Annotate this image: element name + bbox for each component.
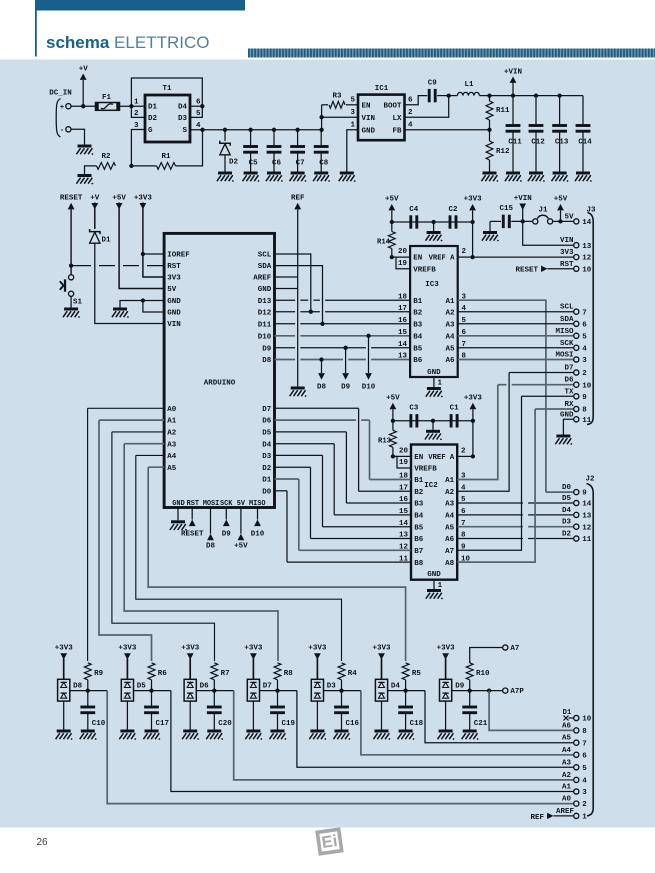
wire VREFA to 3V3 node xyxy=(458,256,473,258)
pin J2-13 D4 xyxy=(562,507,592,521)
net tag RESET xyxy=(60,195,83,276)
svg-text:13: 13 xyxy=(398,353,408,361)
svg-text:J2: J2 xyxy=(585,476,595,484)
diode D1 xyxy=(90,229,111,245)
svg-text:B2: B2 xyxy=(413,309,423,317)
ground C4/C2 mid xyxy=(426,222,443,241)
net tag D10 bottom xyxy=(251,508,265,539)
svg-text:+3V3: +3V3 xyxy=(437,645,456,653)
ground arduino bottom xyxy=(170,508,187,531)
svg-text:A1: A1 xyxy=(562,784,572,792)
svg-text:D12: D12 xyxy=(258,309,272,317)
svg-text:12: 12 xyxy=(582,255,592,263)
ground D9 xyxy=(438,731,455,739)
svg-text:B3: B3 xyxy=(414,501,424,509)
pin bottom-6 A4 xyxy=(562,747,587,761)
svg-text:C6: C6 xyxy=(272,159,282,167)
net tag REF xyxy=(291,195,305,387)
svg-text:3: 3 xyxy=(582,357,587,365)
wire D2 to IC2 B xyxy=(275,467,412,538)
wire IC3 GND pin xyxy=(433,377,435,387)
svg-text:3: 3 xyxy=(350,109,355,117)
ground D8 xyxy=(56,731,73,739)
svg-text:RST: RST xyxy=(167,263,181,271)
capacitor C17 xyxy=(144,691,169,730)
svg-text:D1: D1 xyxy=(101,237,111,245)
resistor R9 xyxy=(84,663,103,691)
wire DC+ to fuse xyxy=(71,104,95,108)
resistor R12 xyxy=(486,130,510,172)
svg-text:SDA: SDA xyxy=(560,316,574,324)
power tag +3V3 cell R7 xyxy=(181,645,200,680)
svg-text:A1: A1 xyxy=(445,298,455,306)
svg-text:A4: A4 xyxy=(445,513,455,521)
wire D9 row to IC3 B5 xyxy=(275,346,411,350)
wire +VIN top rail xyxy=(487,93,583,97)
svg-text:A2: A2 xyxy=(445,309,455,317)
svg-text:A2: A2 xyxy=(167,430,177,438)
pin J3-10 RST xyxy=(515,261,591,275)
wire AREF stub xyxy=(275,276,298,278)
svg-text:VIN: VIN xyxy=(362,115,376,123)
dual diode D4 xyxy=(375,679,400,730)
ground D5 xyxy=(119,731,136,739)
svg-text:+3V3: +3V3 xyxy=(118,645,137,653)
wire D0 to IC2 B xyxy=(275,491,412,562)
svg-text:+3V3: +3V3 xyxy=(464,394,483,402)
svg-text:C18: C18 xyxy=(410,720,424,728)
svg-text:L1: L1 xyxy=(464,81,474,89)
svg-text:C15: C15 xyxy=(500,205,514,213)
wire arduino A1 to divider xyxy=(99,420,164,661)
ground C13 xyxy=(552,173,569,181)
svg-text:+3V3: +3V3 xyxy=(308,645,327,653)
svg-text:C20: C20 xyxy=(218,720,232,728)
svg-text:+3V3: +3V3 xyxy=(55,645,74,653)
svg-text:FB: FB xyxy=(392,127,402,135)
svg-text:R6: R6 xyxy=(158,670,168,678)
ground C20 xyxy=(206,731,223,739)
svg-text:A4: A4 xyxy=(562,747,572,755)
svg-text:C17: C17 xyxy=(156,720,170,728)
power tag +3V3 IC2 xyxy=(464,394,483,458)
wire IC2 A1 up to D6 row xyxy=(457,385,498,480)
wire A7P junction to A6 pin xyxy=(489,691,574,731)
resistor R8 xyxy=(274,663,293,691)
wire IC2 A4 to J2 D4 xyxy=(457,514,574,516)
wire cell R6 to connector xyxy=(171,691,574,792)
svg-text:VREFB: VREFB xyxy=(413,266,436,274)
pin bottom-1 AREF with REF tag xyxy=(530,808,587,822)
svg-text:+V: +V xyxy=(79,66,89,74)
svg-text:D3: D3 xyxy=(262,453,272,461)
wire IC2 A8 up to RX xyxy=(457,409,535,562)
net tag RESET bottom xyxy=(181,508,204,539)
svg-text:6: 6 xyxy=(408,97,413,105)
capacitor C18 xyxy=(398,691,423,730)
wire D1 to IC2 B xyxy=(275,479,412,550)
power tag +3V3 cell R10 xyxy=(437,645,456,680)
pin bottom-2 A0 xyxy=(562,796,587,810)
svg-text:14: 14 xyxy=(582,219,592,227)
pin J2-11 D2 xyxy=(562,531,592,545)
svg-text:+5V: +5V xyxy=(385,196,399,204)
svg-text:R11: R11 xyxy=(496,107,510,115)
svg-text:D4: D4 xyxy=(391,683,401,691)
ground C8 xyxy=(313,173,330,181)
svg-text:C7: C7 xyxy=(296,159,305,167)
capacitor C15 xyxy=(503,215,509,228)
svg-text:A3: A3 xyxy=(562,759,572,767)
capacitor C2 xyxy=(450,215,456,228)
ground C15 xyxy=(482,221,501,241)
svg-text:Ei: Ei xyxy=(321,832,339,852)
svg-text:MISO: MISO xyxy=(555,328,574,336)
svg-text:LX: LX xyxy=(392,115,402,123)
pin J3-11 GND xyxy=(560,411,592,434)
header striped bar xyxy=(248,49,655,58)
resistor R6 xyxy=(148,663,167,691)
svg-text:+5V: +5V xyxy=(112,195,126,203)
wire junction row R4 xyxy=(324,688,361,692)
resistor R14 xyxy=(377,222,395,259)
svg-text:EN: EN xyxy=(413,255,422,263)
wire junction row R5 xyxy=(388,688,425,692)
svg-text:D1: D1 xyxy=(148,104,158,112)
jumper J1 xyxy=(533,207,574,224)
svg-text:C14: C14 xyxy=(578,139,592,147)
capacitor C6 xyxy=(267,130,282,172)
svg-text:D8: D8 xyxy=(73,683,83,691)
wire junction row R6 xyxy=(134,688,171,692)
svg-text:9: 9 xyxy=(582,490,587,498)
svg-text:D5: D5 xyxy=(562,495,572,503)
ground C21 xyxy=(462,731,479,739)
svg-text:5: 5 xyxy=(196,110,201,118)
wire SCL to D12 row xyxy=(275,254,313,314)
svg-text:R4: R4 xyxy=(348,670,358,678)
resistor R10 xyxy=(466,661,490,691)
svg-text:IC3: IC3 xyxy=(425,281,439,289)
svg-text:A6: A6 xyxy=(445,536,455,544)
dual diode D6 xyxy=(184,679,209,730)
svg-text:A4: A4 xyxy=(445,334,455,342)
pin J3-9 TX xyxy=(564,388,587,402)
svg-text:19: 19 xyxy=(398,260,408,268)
capacitor C9 xyxy=(405,80,449,105)
capacitor C19 xyxy=(270,691,295,730)
svg-text:19: 19 xyxy=(399,459,409,467)
svg-text:D9: D9 xyxy=(341,384,351,392)
wire IC3 A1 to J2 D0 xyxy=(458,300,546,492)
power tag +3V3 cell R9 xyxy=(55,645,74,680)
pin J3-7 SCL xyxy=(560,304,587,318)
svg-text:B5: B5 xyxy=(414,524,424,532)
svg-text:R8: R8 xyxy=(284,670,294,678)
ground dc minus xyxy=(76,146,93,154)
svg-text:R9: R9 xyxy=(94,670,104,678)
power tag +3V3 cell R5 xyxy=(372,645,391,680)
svg-text:D4: D4 xyxy=(178,104,188,112)
svg-text:+3V3: +3V3 xyxy=(181,645,200,653)
svg-text:D7: D7 xyxy=(263,683,272,691)
svg-text:+3V3: +3V3 xyxy=(244,645,263,653)
pin J3-14 5V xyxy=(564,213,591,227)
connector J3 xyxy=(586,207,596,425)
svg-text:REF: REF xyxy=(291,195,305,203)
wire IC3 A6 to J3 MOSI xyxy=(458,359,574,361)
svg-text:-: - xyxy=(60,127,65,135)
svg-text:A0: A0 xyxy=(562,796,572,804)
pin J2-14 D5 xyxy=(562,495,592,509)
header top bar xyxy=(35,0,245,11)
wire D8 row to IC3 B6 xyxy=(275,357,411,361)
wire IC2 A6 to J2 D2 xyxy=(457,538,574,540)
svg-text:+: + xyxy=(60,104,65,112)
wire IC2 A7 up to TX xyxy=(457,396,521,550)
wire D7 to IC2 B xyxy=(275,408,412,491)
ground C14 xyxy=(575,173,592,181)
svg-text:AREF: AREF xyxy=(556,808,575,816)
svg-text:D4: D4 xyxy=(562,507,572,515)
svg-text:D8: D8 xyxy=(262,357,272,365)
svg-text:+3V3: +3V3 xyxy=(372,645,391,653)
net tag +5V bottom xyxy=(234,508,248,551)
wire D10 row to IC3 B4 xyxy=(275,334,411,338)
svg-text:D6: D6 xyxy=(262,418,272,426)
capacitor C5 xyxy=(243,130,258,172)
pin bottom-7 A5 xyxy=(562,735,587,749)
svg-text:C16: C16 xyxy=(346,720,360,728)
svg-text:R3: R3 xyxy=(332,93,342,101)
svg-text:3V3: 3V3 xyxy=(560,249,574,257)
wire junction row R7 xyxy=(196,688,233,692)
svg-text:B5: B5 xyxy=(413,346,423,354)
svg-text:C13: C13 xyxy=(555,139,569,147)
wire fuse to T1 pin1 xyxy=(118,104,145,108)
svg-text:D10: D10 xyxy=(251,531,265,539)
ground IC3 xyxy=(426,389,443,397)
wire arduino A3 to divider xyxy=(124,444,278,661)
svg-text:C12: C12 xyxy=(531,139,545,147)
wire GND right stub xyxy=(275,288,298,290)
wire +5V rail IC3 xyxy=(390,220,475,224)
wire IC2 A2 up to D7 row xyxy=(457,373,509,492)
ground REF/AREF xyxy=(290,388,307,396)
svg-text:4: 4 xyxy=(408,122,413,130)
svg-text:A5: A5 xyxy=(445,346,455,354)
svg-text:A6: A6 xyxy=(445,357,455,365)
svg-text:D8: D8 xyxy=(317,384,327,392)
svg-text:2: 2 xyxy=(461,447,466,455)
svg-text:A3: A3 xyxy=(445,501,455,509)
wire rail up to VIN/EN node xyxy=(319,105,323,130)
svg-text:R12: R12 xyxy=(496,148,510,156)
wire EN stub IC2 xyxy=(393,455,411,457)
inductor L1 xyxy=(449,81,490,96)
svg-text:SDA: SDA xyxy=(258,263,272,271)
svg-text:RX: RX xyxy=(564,401,574,409)
svg-text:GND: GND xyxy=(258,286,272,294)
power tag +5V arduino xyxy=(112,195,164,289)
wire C15 to +VIN node xyxy=(511,219,535,223)
svg-text:A1: A1 xyxy=(167,418,177,426)
capacitor C3 xyxy=(411,414,417,427)
resistor R13 xyxy=(378,421,396,459)
svg-text:D13: D13 xyxy=(258,298,272,306)
dual diode D9 xyxy=(440,679,465,730)
ground C18 xyxy=(398,731,415,739)
svg-text:B8: B8 xyxy=(414,560,424,568)
capacitor C8 xyxy=(314,130,329,172)
svg-text:+3V3: +3V3 xyxy=(464,196,483,204)
ground C3/C1 mid xyxy=(425,421,442,440)
pin J3-2 D7 xyxy=(564,365,587,379)
power tag +3V3 IC3 xyxy=(464,196,483,260)
pin A7 xyxy=(470,645,520,663)
svg-text:17: 17 xyxy=(398,305,407,313)
ground C6 xyxy=(266,173,283,181)
svg-text:D10: D10 xyxy=(258,333,272,341)
power tag +3V3 cell R8 xyxy=(244,645,263,680)
svg-text:1: 1 xyxy=(350,122,355,130)
svg-text:2: 2 xyxy=(582,801,587,809)
svg-text:A1: A1 xyxy=(445,477,455,485)
wire T1 pin2 loop to pin5 xyxy=(131,78,204,117)
svg-text:R13: R13 xyxy=(378,437,391,445)
wire DC- to ground xyxy=(71,129,85,144)
svg-text:C9: C9 xyxy=(428,80,438,88)
svg-text:EN: EN xyxy=(362,102,371,110)
svg-text:schema ELETTRICO: schema ELETTRICO xyxy=(46,33,209,52)
wire arduino A2 to divider xyxy=(112,432,215,661)
pin bottom-10 D1 not connected xyxy=(563,709,592,724)
wire cell R4 to connector xyxy=(361,691,574,755)
resistor R5 xyxy=(402,663,421,691)
ground C10 xyxy=(80,731,97,739)
svg-text:D2: D2 xyxy=(148,115,158,123)
pin J3-6 SDA xyxy=(560,316,587,330)
wire D6 to IC2 B xyxy=(275,420,412,479)
resistor R1 xyxy=(131,130,202,169)
wire T1 S output rail xyxy=(190,128,324,132)
wire IC2 A5 to J2 D3 xyxy=(457,526,574,528)
svg-text:A8: A8 xyxy=(445,560,455,568)
net tag D8 bottom xyxy=(206,508,216,551)
svg-text:F1: F1 xyxy=(102,94,112,102)
svg-text:20: 20 xyxy=(398,248,408,256)
svg-text:11: 11 xyxy=(582,417,592,425)
svg-text:RESET: RESET xyxy=(515,266,538,274)
svg-text:D3: D3 xyxy=(327,683,337,691)
svg-text:A2: A2 xyxy=(562,772,572,780)
capacitor C12 xyxy=(529,96,546,172)
net tag D9 down xyxy=(341,348,351,392)
svg-text:20: 20 xyxy=(399,447,409,455)
svg-text:A7P: A7P xyxy=(510,688,524,696)
svg-text:11: 11 xyxy=(582,536,592,544)
wire cell R7 to connector xyxy=(234,691,574,780)
svg-text:D9: D9 xyxy=(262,345,272,353)
wire cell R8 to connector xyxy=(297,691,574,768)
svg-text:A5: A5 xyxy=(445,524,455,532)
svg-text:A7: A7 xyxy=(510,645,519,653)
ground C12 xyxy=(528,173,545,181)
svg-text:A5: A5 xyxy=(562,735,572,743)
capacitor C7 xyxy=(290,130,305,172)
svg-text:D6: D6 xyxy=(564,377,574,385)
connector DC_IN xyxy=(49,90,72,138)
svg-text:5: 5 xyxy=(582,333,587,341)
svg-text:5V: 5V xyxy=(237,500,246,508)
pin J3-4 SCK xyxy=(560,340,587,354)
svg-text:3: 3 xyxy=(582,789,587,797)
svg-text:5V: 5V xyxy=(167,286,177,294)
svg-text:B1: B1 xyxy=(413,298,423,306)
svg-text:1: 1 xyxy=(438,582,443,590)
svg-text:C19: C19 xyxy=(282,720,296,728)
svg-text:4: 4 xyxy=(582,778,587,786)
pin J3-8 RX xyxy=(564,401,587,415)
svg-text:D0: D0 xyxy=(262,488,272,496)
svg-text:B6: B6 xyxy=(414,536,424,544)
pin A7P xyxy=(503,688,525,696)
svg-text:S: S xyxy=(182,127,187,135)
svg-text:3: 3 xyxy=(134,122,139,130)
svg-text:C3: C3 xyxy=(409,405,419,413)
svg-text:A7: A7 xyxy=(445,548,454,556)
ground R12 xyxy=(481,173,498,181)
svg-text:6: 6 xyxy=(196,98,201,106)
wire T1 pin3 G to R-junction xyxy=(129,130,145,169)
wire IC3 A5 to J3 SCK xyxy=(458,347,574,349)
ground C5 xyxy=(243,173,260,181)
wire IC3 A3 to J3 SDA xyxy=(458,323,574,325)
svg-text:DC_IN: DC_IN xyxy=(49,90,72,98)
svg-text:D5: D5 xyxy=(137,683,147,691)
svg-text:C21: C21 xyxy=(474,720,488,728)
power tag +5V J1 xyxy=(554,196,568,222)
svg-text:A3: A3 xyxy=(167,441,177,449)
module ARDUINO U1 xyxy=(164,233,274,507)
svg-text:+5V: +5V xyxy=(554,196,568,204)
pin J2-12 D3 xyxy=(562,519,592,533)
svg-text:D3: D3 xyxy=(178,115,188,123)
wire VREFB loop IC3 xyxy=(396,257,410,269)
capacitor C20 xyxy=(207,691,232,730)
svg-text:GND: GND xyxy=(362,127,376,135)
wire junction row R9 xyxy=(70,688,107,692)
svg-text:8: 8 xyxy=(582,728,587,736)
svg-text:1: 1 xyxy=(582,814,587,822)
svg-text:R7: R7 xyxy=(221,670,230,678)
wire D1 to VIN xyxy=(95,243,164,324)
switch S1 xyxy=(60,275,83,308)
fuse F1 xyxy=(96,94,120,110)
svg-text:14: 14 xyxy=(398,341,408,349)
ground D6 xyxy=(182,731,199,739)
svg-text:6: 6 xyxy=(582,752,587,760)
ground IC2 xyxy=(426,591,443,599)
svg-text:1: 1 xyxy=(438,380,443,388)
svg-text:2: 2 xyxy=(408,109,413,117)
svg-text:A4: A4 xyxy=(167,453,177,461)
ground C17 xyxy=(143,731,160,739)
svg-text:B6: B6 xyxy=(413,357,423,365)
svg-text:4: 4 xyxy=(582,345,587,353)
wire FB node xyxy=(405,128,492,132)
svg-text:8: 8 xyxy=(582,407,587,415)
